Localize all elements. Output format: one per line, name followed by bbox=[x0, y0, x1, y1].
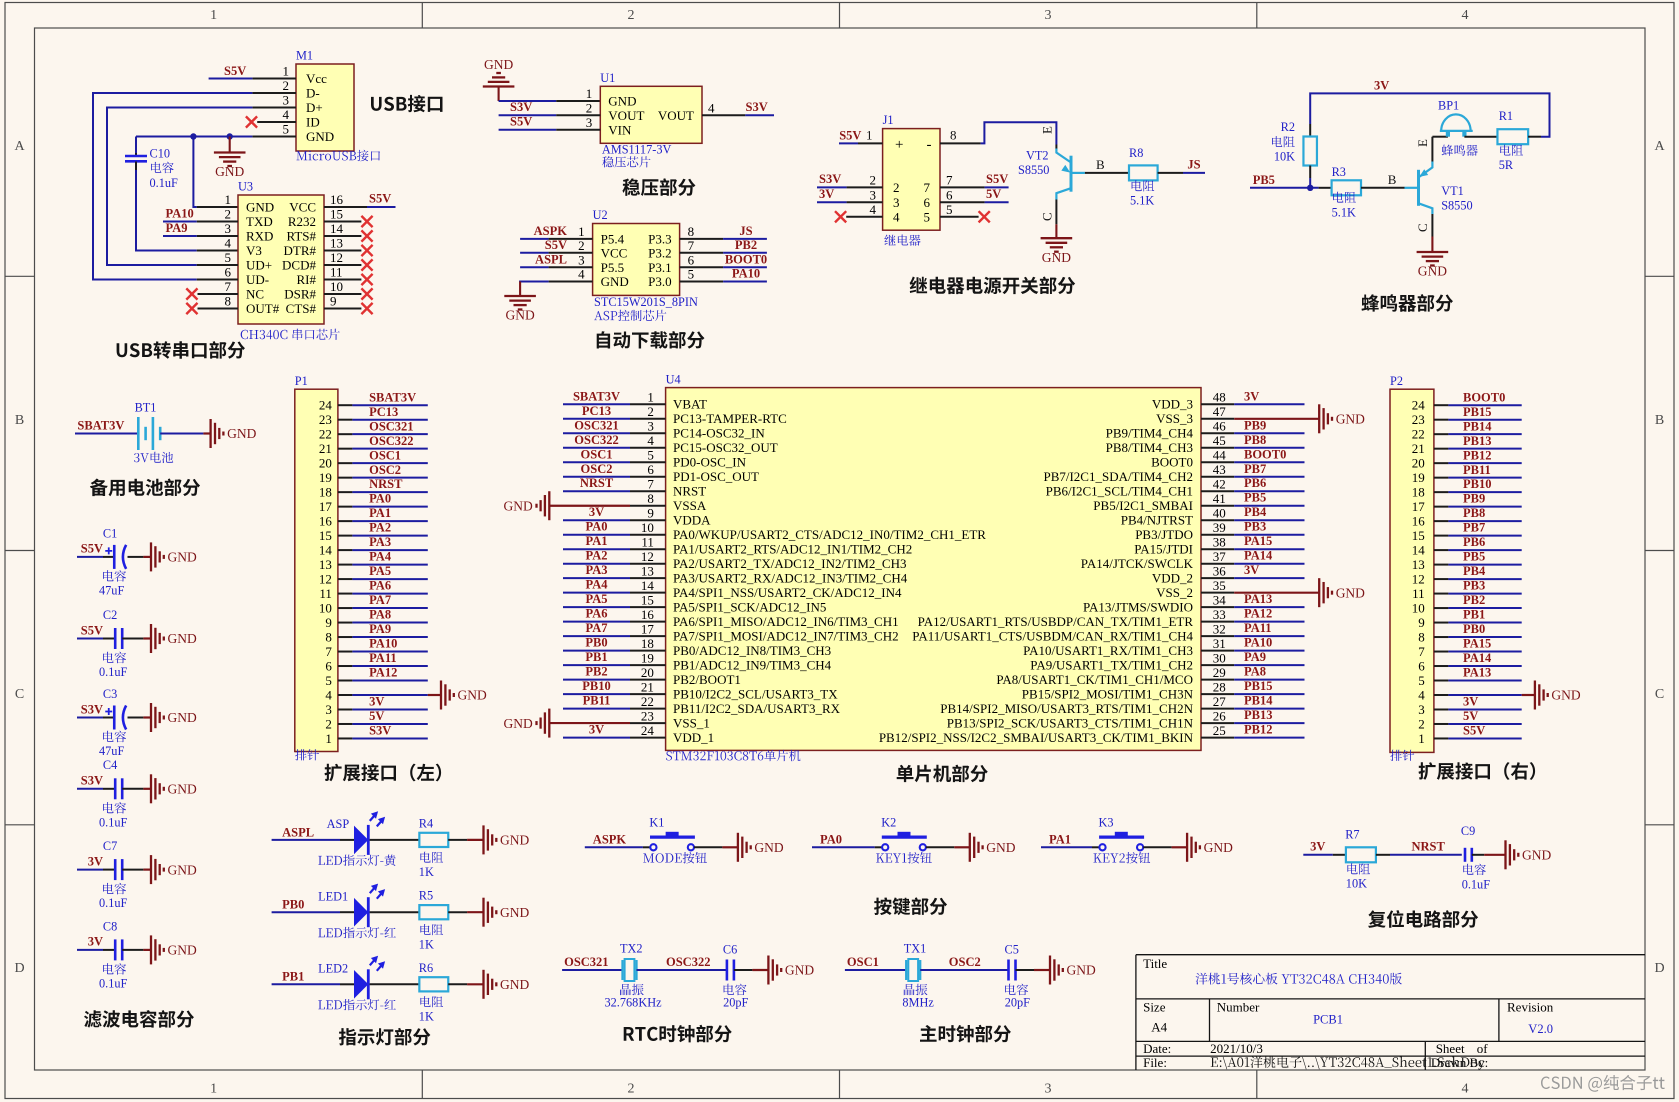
M1 pin 5 stub bbox=[252, 136, 296, 138]
svg-text:GND: GND bbox=[246, 200, 274, 215]
svg-text:3: 3 bbox=[283, 93, 290, 108]
P1 pin 16 stub bbox=[338, 520, 353, 522]
wire OSC322 at U4.4 bbox=[563, 447, 630, 449]
svg-text:VDDA: VDDA bbox=[673, 513, 711, 528]
svg-text:VCC: VCC bbox=[601, 245, 628, 260]
capacitor C10 bbox=[125, 153, 147, 170]
svg-text:PA2/USART2_TX/ADC12_IN2/TIM2_C: PA2/USART2_TX/ADC12_IN2/TIM2_CH3 bbox=[673, 556, 906, 571]
wire PB3 at P2.11 bbox=[1448, 593, 1521, 595]
svg-text:OSC322: OSC322 bbox=[666, 955, 710, 969]
wire PC13 at P1.23 bbox=[352, 419, 427, 421]
svg-text:SBAT3V: SBAT3V bbox=[573, 389, 620, 403]
wire BOOT0 at U4.44 bbox=[1234, 461, 1304, 463]
U4 pin 34 stub bbox=[1201, 606, 1234, 608]
wire PB1 at U4.19 bbox=[563, 664, 630, 666]
svg-text:K1: K1 bbox=[649, 816, 664, 830]
svg-text:GND: GND bbox=[1067, 963, 1096, 978]
U4 pin 21 stub bbox=[630, 693, 666, 695]
svg-text:9: 9 bbox=[647, 506, 654, 521]
K1 left lead bbox=[643, 846, 650, 848]
J1 right pin numbers outside bbox=[946, 173, 953, 217]
svg-text:5: 5 bbox=[946, 202, 953, 217]
svg-text:OUT#: OUT# bbox=[246, 301, 280, 316]
resistor R1 bbox=[1497, 129, 1528, 144]
svg-text:GND: GND bbox=[785, 963, 814, 978]
wire PA9 at P1.8 bbox=[352, 636, 427, 638]
comment KEY1按钮 bbox=[876, 852, 932, 864]
wire GND net down to U3.1 bbox=[193, 137, 196, 208]
svg-text:1: 1 bbox=[647, 390, 654, 405]
svg-text:PB7: PB7 bbox=[1463, 521, 1485, 535]
svg-text:8: 8 bbox=[225, 294, 232, 309]
svg-text:39: 39 bbox=[1213, 520, 1226, 535]
svg-text:4: 4 bbox=[893, 209, 900, 224]
ground at P2.4 bbox=[1522, 694, 1535, 696]
U4 pin 15 stub bbox=[630, 606, 666, 608]
svg-text:GND: GND bbox=[608, 94, 636, 109]
ground right of BT1 bbox=[203, 432, 210, 434]
svg-text:19: 19 bbox=[1412, 470, 1425, 485]
svg-text:S3V: S3V bbox=[819, 172, 841, 186]
svg-text:9: 9 bbox=[330, 294, 337, 309]
wire 3V at U4.36 bbox=[1234, 577, 1304, 579]
svg-text:1: 1 bbox=[210, 1082, 217, 1097]
svg-text:3V: 3V bbox=[1310, 840, 1325, 854]
svg-text:V2.0: V2.0 bbox=[1528, 1022, 1553, 1036]
ground right of C1 bbox=[143, 556, 151, 558]
svg-text:S5V: S5V bbox=[1463, 724, 1485, 738]
svg-text:12: 12 bbox=[330, 250, 343, 265]
svg-text:S5V: S5V bbox=[81, 623, 103, 637]
svg-text:BP1: BP1 bbox=[1438, 99, 1459, 113]
comment C9 dianrong bbox=[1463, 864, 1486, 875]
ground right of C4 bbox=[143, 788, 151, 790]
U4 pin 48 stub bbox=[1201, 403, 1234, 405]
svg-text:8: 8 bbox=[1418, 629, 1425, 644]
svg-text:PA10: PA10 bbox=[732, 267, 760, 281]
svg-text:2: 2 bbox=[225, 207, 232, 222]
U4 pin 18 stub bbox=[630, 650, 666, 652]
svg-text:4: 4 bbox=[1418, 687, 1425, 702]
P1 pin 4 stub bbox=[338, 694, 353, 696]
svg-text:PB11: PB11 bbox=[1463, 463, 1491, 477]
P2 pin 1 stub bbox=[1434, 737, 1449, 739]
wire PA14 at U4.37 bbox=[1234, 563, 1304, 565]
svg-text:C8: C8 bbox=[103, 919, 117, 933]
U3 pin 8 stub bbox=[198, 308, 239, 310]
svg-text:1K: 1K bbox=[419, 937, 434, 951]
wire PB0 at U4.18 bbox=[563, 650, 630, 652]
U4 pin 33 stub bbox=[1201, 621, 1234, 623]
svg-text:47: 47 bbox=[1213, 404, 1227, 419]
P2 pin 9 stub bbox=[1434, 622, 1449, 624]
svg-text:PA12/USART1_RTS/USBDP/CAN_TX/T: PA12/USART1_RTS/USBDP/CAN_TX/TIM1_ETR bbox=[918, 614, 1194, 629]
svg-text:PA9: PA9 bbox=[166, 221, 188, 235]
svg-text:30: 30 bbox=[1213, 651, 1226, 666]
svg-text:GND: GND bbox=[1522, 848, 1551, 863]
section title USB-serial bbox=[117, 341, 245, 359]
J1 pin 6 stub bbox=[940, 201, 985, 203]
svg-text:E: E bbox=[1415, 139, 1430, 147]
P2 pin numbers bbox=[1412, 398, 1426, 746]
svg-text:3: 3 bbox=[870, 187, 877, 202]
svg-text:U3: U3 bbox=[238, 180, 253, 194]
svg-text:PA8: PA8 bbox=[369, 608, 391, 622]
ground right of R6 bbox=[467, 983, 483, 985]
svg-text:OSC322: OSC322 bbox=[369, 434, 413, 448]
svg-text:33: 33 bbox=[1213, 607, 1226, 622]
svg-text:PB2/BOOT1: PB2/BOOT1 bbox=[673, 672, 741, 687]
R7 left lead bbox=[1333, 854, 1346, 856]
ground right of C8 bbox=[143, 949, 151, 951]
wire PC13 at U4.2 bbox=[563, 418, 630, 420]
svg-text:PB3: PB3 bbox=[1244, 520, 1266, 534]
svg-text:3: 3 bbox=[586, 115, 593, 130]
svg-text:47uF: 47uF bbox=[99, 744, 124, 758]
P1 pin numbers bbox=[319, 398, 333, 746]
svg-text:7: 7 bbox=[946, 173, 953, 188]
svg-text:32: 32 bbox=[1213, 622, 1226, 637]
resistor R2 bbox=[1303, 137, 1317, 166]
wire K1 to ground bbox=[694, 846, 722, 848]
U4 pin 7 stub bbox=[630, 490, 666, 492]
svg-text:7: 7 bbox=[924, 180, 931, 195]
ground at U4.23 bbox=[549, 722, 630, 724]
P1 pin 19 stub bbox=[338, 477, 353, 479]
J1 pin 3 stub bbox=[847, 201, 883, 203]
no-connect X on U3.8 bbox=[186, 303, 197, 314]
transistor VT1 S8550 bbox=[1405, 162, 1433, 215]
svg-text:21: 21 bbox=[641, 680, 654, 695]
svg-text:29: 29 bbox=[1213, 665, 1226, 680]
svg-text:7: 7 bbox=[647, 477, 654, 492]
U4 pin 41 stub bbox=[1201, 505, 1234, 507]
wire PA10 at U4.31 bbox=[1234, 650, 1304, 652]
svg-text:5V: 5V bbox=[369, 709, 384, 723]
svg-text:GND: GND bbox=[168, 862, 197, 877]
section title relay power switch bbox=[910, 277, 1076, 295]
U3 pin 3 stub bbox=[197, 235, 238, 237]
svg-text:PA15/JTDI: PA15/JTDI bbox=[1134, 542, 1193, 557]
svg-text:B: B bbox=[1388, 172, 1397, 187]
svg-text:28: 28 bbox=[1213, 680, 1226, 695]
wire PA14 at P2.6 bbox=[1448, 665, 1521, 667]
VT1 emitter pin bbox=[1431, 137, 1433, 162]
svg-text:PB15/SPI2_MOSI/TIM1_CH3N: PB15/SPI2_MOSI/TIM1_CH3N bbox=[1022, 687, 1194, 702]
svg-text:GND: GND bbox=[504, 716, 533, 731]
svg-text:BOOT0: BOOT0 bbox=[1463, 390, 1505, 404]
comment R7 dianzu bbox=[1347, 863, 1370, 874]
svg-text:PB0: PB0 bbox=[282, 898, 304, 912]
svg-text:K2: K2 bbox=[881, 816, 896, 830]
svg-text:PA13: PA13 bbox=[1244, 592, 1272, 606]
svg-text:NRST: NRST bbox=[580, 476, 614, 490]
svg-text:8: 8 bbox=[950, 128, 957, 143]
ground right of C7 bbox=[143, 868, 151, 870]
svg-text:0.1uF: 0.1uF bbox=[150, 176, 179, 190]
svg-text:PB13/SPI2_SCK/USART3_CTS/TIM1_: PB13/SPI2_SCK/USART3_CTS/TIM1_CH1N bbox=[947, 716, 1194, 731]
wire PB2 at P2.10 bbox=[1448, 607, 1521, 609]
wire S3V at P1.1 bbox=[352, 737, 427, 739]
svg-text:PA14/JTCK/SWCLK: PA14/JTCK/SWCLK bbox=[1081, 556, 1194, 571]
svg-text:PA7: PA7 bbox=[586, 621, 608, 635]
svg-text:U2: U2 bbox=[593, 208, 608, 222]
svg-text:PA11/USART1_CTS/USBDM/CAN_RX/T: PA11/USART1_CTS/USBDM/CAN_RX/TIM1_CH4 bbox=[912, 629, 1193, 644]
wire PA0 at U4.10 bbox=[563, 534, 630, 536]
svg-text:PB14: PB14 bbox=[1463, 419, 1492, 433]
svg-text:SBAT3V: SBAT3V bbox=[77, 418, 124, 432]
svg-text:NC: NC bbox=[246, 287, 264, 302]
svg-text:D: D bbox=[14, 961, 24, 976]
svg-text:1: 1 bbox=[210, 8, 217, 23]
U2 right pin stub bbox=[680, 281, 724, 283]
M1 pin 1 stub bbox=[252, 78, 296, 80]
svg-text:VSSA: VSSA bbox=[673, 498, 707, 513]
comment LED指示灯-红 bbox=[318, 927, 396, 938]
wire OSC322 bbox=[637, 969, 727, 971]
svg-text:6: 6 bbox=[924, 195, 931, 210]
U3 left pin numbers bbox=[225, 192, 232, 309]
svg-text:PA10: PA10 bbox=[1244, 636, 1272, 650]
LED LED2 anode lead bbox=[340, 983, 354, 985]
U3 pin 9 stub bbox=[324, 308, 361, 310]
svg-text:PA14: PA14 bbox=[1463, 651, 1492, 665]
svg-text:35: 35 bbox=[1213, 578, 1226, 593]
U3 pin 10 stub bbox=[324, 293, 361, 295]
comment C2 dianrong bbox=[103, 652, 126, 664]
P2 pin 11 stub bbox=[1434, 593, 1449, 595]
wire PA13 at U4.34 bbox=[1234, 606, 1304, 608]
section title wenya bbox=[622, 178, 695, 196]
U4 pin 9 stub bbox=[630, 519, 666, 521]
capacitor C8 bbox=[103, 949, 115, 951]
svg-text:PA3: PA3 bbox=[369, 535, 391, 549]
svg-text:AMS1117-3V: AMS1117-3V bbox=[602, 143, 672, 157]
wire R8 to JS bbox=[1158, 172, 1183, 174]
svg-text:VDD_2: VDD_2 bbox=[1152, 571, 1193, 586]
svg-text:34: 34 bbox=[1213, 593, 1227, 608]
wire PB9 at U4.46 bbox=[1234, 432, 1304, 434]
svg-text:OSC322: OSC322 bbox=[574, 433, 618, 447]
svg-text:VSS_2: VSS_2 bbox=[1156, 585, 1193, 600]
svg-text:P2: P2 bbox=[1390, 374, 1403, 388]
svg-text:3V: 3V bbox=[1244, 563, 1259, 577]
wire OSC321 at U4.3 bbox=[563, 432, 630, 434]
svg-text:1K: 1K bbox=[419, 1009, 434, 1023]
svg-text:3V: 3V bbox=[1463, 695, 1478, 709]
svg-text:D-: D- bbox=[306, 86, 320, 101]
svg-text:PA2: PA2 bbox=[586, 549, 608, 563]
svg-text:PA4: PA4 bbox=[586, 578, 609, 592]
svg-text:OSC321: OSC321 bbox=[564, 955, 608, 969]
K3 left lead bbox=[1092, 846, 1099, 848]
comment 3V battery bbox=[134, 452, 173, 463]
svg-text:3V: 3V bbox=[369, 695, 384, 709]
wire PB10 at U4.21 bbox=[563, 693, 630, 695]
svg-text:P1: P1 bbox=[295, 374, 308, 388]
svg-text:JS: JS bbox=[1187, 157, 1200, 171]
svg-text:32.768KHz: 32.768KHz bbox=[605, 996, 663, 1010]
svg-text:PA11: PA11 bbox=[369, 651, 397, 665]
svg-text:PA7/SPI1_MOSI/ADC12_IN7/TIM3_C: PA7/SPI1_MOSI/ADC12_IN7/TIM3_CH2 bbox=[673, 629, 899, 644]
U3 right pin numbers bbox=[330, 192, 344, 309]
svg-text:PA10/USART1_RX/TIM1_CH3: PA10/USART1_RX/TIM1_CH3 bbox=[1023, 643, 1193, 658]
wire PA4 at U4.14 bbox=[563, 592, 630, 594]
svg-text:GND: GND bbox=[306, 129, 334, 144]
svg-text:3V: 3V bbox=[819, 187, 834, 201]
svg-text:5: 5 bbox=[647, 448, 654, 463]
svg-text:PB8: PB8 bbox=[1463, 506, 1485, 520]
U3 pin 11 stub bbox=[324, 279, 361, 281]
svg-text:14: 14 bbox=[319, 542, 333, 557]
svg-text:6: 6 bbox=[688, 253, 695, 268]
svg-text:UD+: UD+ bbox=[246, 258, 272, 273]
U4 pin 35 stub bbox=[1201, 592, 1234, 594]
svg-text:3V: 3V bbox=[1244, 389, 1259, 403]
wire PA13 at P2.5 bbox=[1448, 680, 1521, 682]
wire 3V at P1.3 bbox=[352, 708, 427, 710]
relay J1 box bbox=[883, 129, 940, 231]
U4 pin 14 stub bbox=[630, 592, 666, 594]
wire PA10 at P1.7 bbox=[352, 651, 427, 653]
svg-text:PC13: PC13 bbox=[582, 404, 611, 418]
svg-text:GND: GND bbox=[168, 943, 197, 958]
U4 pin 16 stub bbox=[630, 621, 666, 623]
wire R5 to ground bbox=[448, 911, 467, 913]
svg-text:2: 2 bbox=[1418, 716, 1425, 731]
wire PB0 to LED1 bbox=[272, 911, 340, 913]
svg-text:PB5/I2C1_SMBAI: PB5/I2C1_SMBAI bbox=[1093, 498, 1193, 513]
P2 pin 14 stub bbox=[1434, 549, 1449, 551]
wire PB1 to LED2 bbox=[272, 983, 340, 985]
U4 pin 45 stub bbox=[1201, 447, 1234, 449]
svg-text:13: 13 bbox=[319, 557, 332, 572]
svg-text:PA13: PA13 bbox=[1463, 666, 1491, 680]
svg-text:4: 4 bbox=[708, 101, 715, 116]
VT1 base wire bbox=[1361, 187, 1405, 189]
svg-text:5: 5 bbox=[225, 250, 232, 265]
comment R1 dianzu bbox=[1500, 145, 1523, 156]
svg-text:3: 3 bbox=[325, 702, 332, 717]
wire R2 to junction bbox=[1309, 178, 1311, 188]
svg-text:PB7/I2C1_SDA/TIM4_CH2: PB7/I2C1_SDA/TIM4_CH2 bbox=[1043, 469, 1193, 484]
U3 pin 14 stub bbox=[324, 235, 361, 237]
svg-text:S3V: S3V bbox=[369, 724, 391, 738]
svg-text:PB0: PB0 bbox=[585, 636, 607, 650]
U2 pin stub bbox=[549, 238, 593, 240]
svg-text:2021/10/3: 2021/10/3 bbox=[1210, 1041, 1263, 1056]
svg-text:PB6: PB6 bbox=[1244, 476, 1266, 490]
wire ASPL to ASP bbox=[272, 839, 340, 841]
svg-text:16: 16 bbox=[641, 607, 655, 622]
junction on GND wire at GND symbol bbox=[227, 133, 233, 139]
wire P2.4 to ground bbox=[1448, 694, 1521, 696]
svg-text:PB9: PB9 bbox=[1244, 418, 1266, 432]
svg-text:PB7: PB7 bbox=[1244, 462, 1266, 476]
svg-text:PA3: PA3 bbox=[586, 563, 608, 577]
P2 pin 16 stub bbox=[1434, 520, 1449, 522]
comment R4 dianzu bbox=[420, 852, 443, 863]
svg-text:S5V: S5V bbox=[81, 542, 103, 556]
U4 pin 39 stub bbox=[1201, 534, 1234, 536]
comment R5 dianzu bbox=[420, 924, 443, 935]
svg-text:18: 18 bbox=[319, 484, 332, 499]
svg-text:40: 40 bbox=[1213, 506, 1226, 521]
wire PB2 at U4.20 bbox=[563, 679, 630, 681]
svg-text:R5: R5 bbox=[419, 889, 433, 903]
svg-text:48: 48 bbox=[1213, 390, 1226, 405]
svg-text:14: 14 bbox=[1412, 542, 1426, 557]
U2 right pin stub bbox=[680, 266, 724, 268]
U3 pin 6 stub bbox=[197, 279, 238, 281]
svg-text:GND: GND bbox=[1551, 688, 1580, 703]
svg-text:DSR#: DSR# bbox=[284, 287, 316, 302]
svg-text:PB4/NJTRST: PB4/NJTRST bbox=[1121, 513, 1193, 528]
svg-text:GND: GND bbox=[986, 840, 1015, 855]
ground right of K3 bbox=[1172, 846, 1188, 848]
no-connect X on U3.9 bbox=[361, 303, 372, 314]
comment C1 dianrong bbox=[103, 570, 126, 582]
svg-text:8MHz: 8MHz bbox=[902, 996, 934, 1010]
U4 pin 38 stub bbox=[1201, 548, 1234, 550]
U4 pin 5 stub bbox=[630, 461, 666, 463]
svg-text:OSC321: OSC321 bbox=[574, 418, 618, 432]
svg-text:1: 1 bbox=[578, 224, 585, 239]
svg-text:PA8/USART1_CK/TIM1_CH1/MCO: PA8/USART1_CK/TIM1_CH1/MCO bbox=[996, 672, 1193, 687]
P2 pin 21 stub bbox=[1434, 448, 1449, 450]
connector M1 MicroUSB box bbox=[296, 64, 354, 151]
VT2 collector pin bbox=[1055, 200, 1057, 225]
battery BT1 bbox=[138, 417, 160, 450]
ground right of C6 bbox=[752, 969, 768, 971]
wire NRST at U4.7 bbox=[563, 490, 630, 492]
wire PA4 at P1.13 bbox=[352, 564, 427, 566]
wire OSC321 to TX2 bbox=[562, 969, 622, 971]
wire 5V at P2.2 bbox=[1448, 723, 1521, 725]
P1 pin 13 stub bbox=[338, 564, 353, 566]
ground right of R5 bbox=[467, 911, 483, 913]
ground right of C3 bbox=[143, 716, 151, 718]
wire PA8 at P1.9 bbox=[352, 622, 427, 624]
wire PB2 bbox=[723, 252, 767, 254]
svg-text:C10: C10 bbox=[150, 147, 171, 161]
svg-text:A: A bbox=[14, 139, 25, 154]
U4 pin 29 stub bbox=[1201, 679, 1234, 681]
wire OSC2 at U4.6 bbox=[563, 476, 630, 478]
P1 pin 7 stub bbox=[338, 651, 353, 653]
wire BOOT0 at P2.24 bbox=[1448, 404, 1521, 406]
U4 pin 6 stub bbox=[630, 476, 666, 478]
wire BT1 to ground bbox=[160, 433, 203, 435]
svg-text:PB10: PB10 bbox=[582, 679, 610, 693]
svg-text:7: 7 bbox=[325, 644, 332, 659]
comment ASP control chip bbox=[594, 310, 666, 321]
U2 pin stub bbox=[549, 266, 593, 268]
ground at P1.4 bbox=[428, 694, 441, 696]
wire BOOT0 bbox=[723, 266, 767, 268]
svg-text:A: A bbox=[1654, 139, 1665, 154]
svg-text:PD1-OSC_OUT: PD1-OSC_OUT bbox=[673, 469, 759, 484]
svg-text:PA5: PA5 bbox=[369, 564, 391, 578]
svg-text:-: - bbox=[927, 137, 932, 153]
svg-text:C4: C4 bbox=[103, 758, 117, 772]
svg-text:PA6: PA6 bbox=[586, 607, 608, 621]
svg-text:2: 2 bbox=[325, 716, 332, 731]
svg-text:19: 19 bbox=[641, 651, 654, 666]
comment R3 dianzu bbox=[1333, 192, 1356, 203]
svg-text:GND: GND bbox=[601, 274, 629, 289]
P2 pin 8 stub bbox=[1434, 636, 1449, 638]
